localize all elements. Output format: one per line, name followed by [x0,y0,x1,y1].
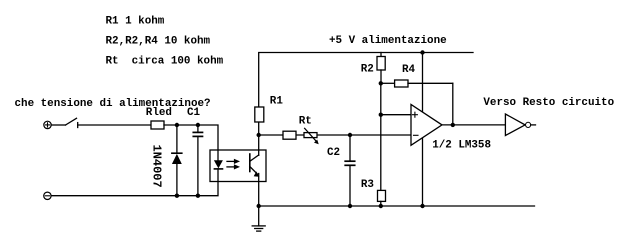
op-amp U1 triangle [411,105,442,146]
trimmer Rt [304,128,319,144]
terminal + input [44,121,51,128]
wire R3 to ground rail [380,201,382,206]
svg-text:R4: R4 [402,64,416,76]
svg-text:1/2 LM358: 1/2 LM358 [432,140,491,152]
wire emitter to ground rail [258,174,260,207]
node plus input [379,113,383,117]
svg-text:R3: R3 [361,179,374,191]
resistor Rt fixed part [283,131,296,139]
wire plus input node down to R3 [380,83,382,190]
svg-text:Rt: Rt [299,115,312,127]
ground symbol [252,206,265,231]
wire Rled to corner above optocoupler [164,125,218,160]
svg-text:C1: C1 [187,107,201,119]
svg-text:R2,R2,R4 10 kohm: R2,R2,R4 10 kohm [106,36,211,48]
node R1 bottom / minus row [257,133,261,137]
optocoupler light arrow 2 [227,164,240,169]
svg-text:R1 1 kohm: R1 1 kohm [106,15,165,27]
optocoupler U2 box [210,150,266,182]
svg-text:che tensione di alimentazinoe?: che tensione di alimentazinoe? [15,98,211,110]
wire op-amp V- to ground rail [422,137,424,206]
node C2 bottom [348,204,352,208]
node C2 top [348,133,352,137]
wire from + terminal to switch [51,124,65,126]
resistor Rled [151,121,164,129]
node op-amp ground [420,204,424,208]
wire op-amp output [442,124,505,126]
capacitor C1 [193,125,202,196]
ground rail wire [259,205,535,207]
wire bottom-left return [51,169,218,196]
svg-text:1N4007: 1N4007 [150,145,164,188]
node C1 bottom [196,194,200,198]
resistor R1 [255,107,264,122]
svg-text:+5 V alimentazione: +5 V alimentazione [329,35,447,47]
node emitter/ground [257,204,261,208]
terminal - input [44,192,51,199]
buffer bubble [526,122,531,127]
wire to plus input [381,114,411,116]
svg-text:Rled: Rled [146,107,172,119]
resistor R3 [378,190,386,201]
svg-text:Verso Resto circuito: Verso Resto circuito [483,97,614,109]
node diode bottom [175,194,179,198]
svg-text:R1: R1 [270,95,284,107]
wire minus input row [259,134,411,136]
svg-text:R2: R2 [361,63,374,75]
op-amp plus pin mark [412,112,417,117]
switch S1 [66,118,78,127]
optocoupler phototransistor [250,154,260,177]
wire collector to node [258,135,260,155]
+5V rail wire [259,53,473,136]
wire switch to Rled [78,124,151,126]
node R2/R4 [379,81,383,85]
node output/feedback [451,123,455,127]
wire feedback down [452,83,454,125]
optocoupler LED [214,160,223,169]
node C1 top [196,123,200,127]
optocoupler light arrow 1 [227,159,240,164]
buffer inverter triangle [505,114,525,136]
svg-text:C2: C2 [327,147,340,159]
node V+ junction on rail [420,50,424,54]
resistor R4 [381,80,453,87]
capacitor C2 [345,135,355,206]
node diode top [175,123,179,127]
wire op-amp V+ from rail [422,53,424,114]
wire buffer output stub [531,124,536,126]
svg-text:Rt circa 100 kohm: Rt circa 100 kohm [106,56,224,68]
resistor R2 [377,53,385,84]
op-amp minus pin mark [414,134,419,136]
diode D1 1N4007 [172,125,182,196]
node R3 bottom [379,204,383,208]
